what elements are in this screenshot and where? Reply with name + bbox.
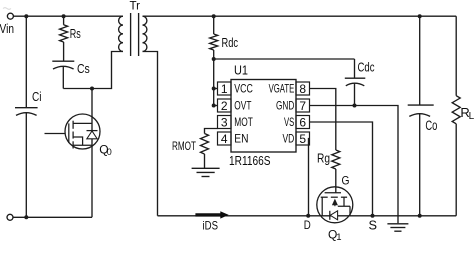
svg-text:3: 3 xyxy=(221,116,228,130)
svg-text:1: 1 xyxy=(336,232,341,243)
svg-text:U1: U1 xyxy=(234,64,248,78)
svg-text:L: L xyxy=(469,111,474,122)
svg-text:7: 7 xyxy=(299,99,306,113)
svg-text:Rg: Rg xyxy=(317,151,330,165)
svg-text:8: 8 xyxy=(299,82,306,96)
svg-text:D: D xyxy=(304,218,311,232)
svg-text:Rs: Rs xyxy=(70,26,81,41)
svg-text:RMOT: RMOT xyxy=(172,139,196,153)
svg-text:Cdc: Cdc xyxy=(358,61,375,75)
svg-text:6: 6 xyxy=(299,116,306,130)
svg-text:2: 2 xyxy=(221,99,228,113)
svg-text:Vin: Vin xyxy=(0,22,14,36)
svg-text:VD: VD xyxy=(283,132,295,146)
svg-text:Ci: Ci xyxy=(32,89,42,104)
svg-text:1R1166S: 1R1166S xyxy=(229,153,271,168)
svg-text:G: G xyxy=(342,173,350,187)
svg-text:5: 5 xyxy=(299,132,306,146)
svg-text:MOT: MOT xyxy=(234,115,253,129)
svg-text:VCC: VCC xyxy=(234,82,253,96)
svg-text:EN: EN xyxy=(234,132,248,146)
svg-text:Tr: Tr xyxy=(130,0,141,13)
svg-text:4: 4 xyxy=(221,132,228,146)
svg-text:Cs: Cs xyxy=(77,62,90,76)
svg-text:0: 0 xyxy=(107,147,112,157)
svg-text:1: 1 xyxy=(221,82,228,96)
svg-text:Rdc: Rdc xyxy=(222,36,239,50)
svg-text:Co: Co xyxy=(425,118,437,133)
svg-text:GND: GND xyxy=(276,99,295,113)
svg-text:S: S xyxy=(369,217,378,232)
svg-text:VGATE: VGATE xyxy=(269,82,295,96)
svg-text:VS: VS xyxy=(284,115,294,129)
svg-text:iDS: iDS xyxy=(203,219,219,233)
svg-text:OVT: OVT xyxy=(234,99,252,113)
